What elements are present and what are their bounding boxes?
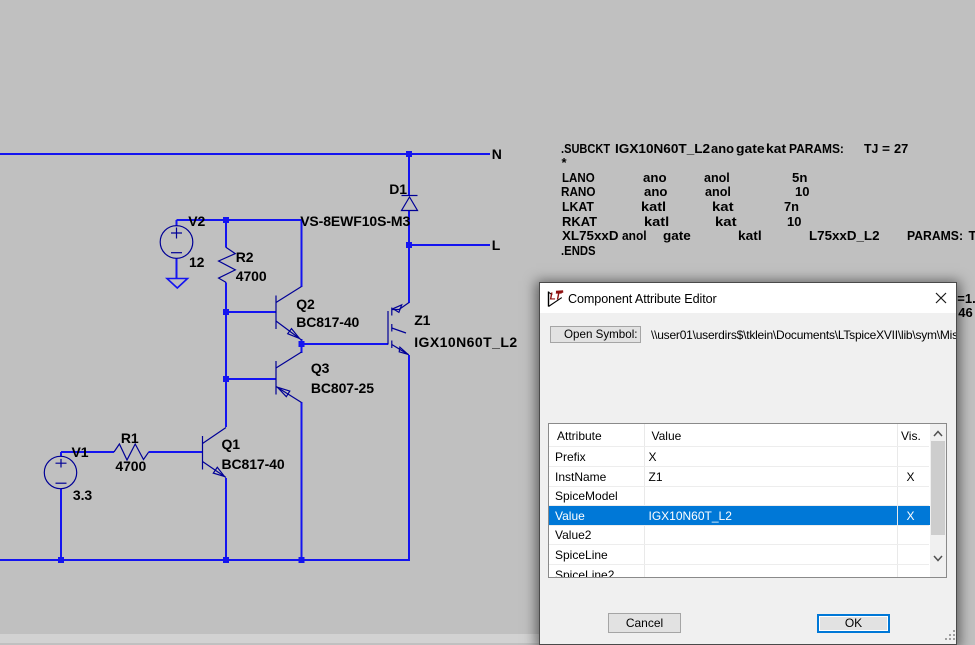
svg-text:LT: LT: [550, 291, 562, 302]
